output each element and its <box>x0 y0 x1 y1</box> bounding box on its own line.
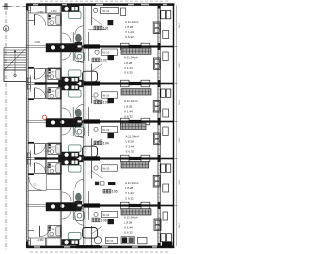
hall door arc 105 <box>75 179 84 188</box>
kitchen cluster y205.5 <box>46 203 82 212</box>
room door swing 104 <box>92 139 102 146</box>
bath unit 102 <box>48 68 61 80</box>
symbol circle 104 <box>94 127 98 131</box>
closet 105 <box>121 162 149 169</box>
svg-text:L 8.28: L 8.28 <box>124 221 133 225</box>
washer pan 102 <box>153 58 160 69</box>
svg-text:1.5M: 1.5M <box>50 229 55 231</box>
toilet wall 101 <box>72 32 74 47</box>
room label 105 <box>103 189 118 193</box>
svg-text:W↑10: W↑10 <box>103 51 110 55</box>
left wall <box>26 4 28 249</box>
sink basin 101 <box>69 12 81 19</box>
hall wall x61 103 <box>60 84 61 122</box>
svg-text:L 8.28: L 8.28 <box>125 25 134 29</box>
divider room boxes y46.5 <box>121 43 150 50</box>
hall door arc 102 <box>75 54 84 63</box>
hall wall x84 105 <box>83 159 85 206</box>
kitchen counter 103 <box>62 85 80 91</box>
porch niche wall 105 <box>28 174 34 176</box>
divider blob right y158.5 <box>76 155 84 162</box>
hall wall x61 101 <box>60 5 61 47</box>
meter box 104 <box>27 150 30 158</box>
svg-text:L 8.28: L 8.28 <box>126 140 135 144</box>
grid dash to wall <box>9 5 26 7</box>
divider wall y121.5 <box>26 120 173 122</box>
bottom wall <box>26 245 174 248</box>
divider wall y83.5 <box>26 82 173 84</box>
balcony box 104 <box>163 127 168 136</box>
room door swing 106 <box>92 227 102 234</box>
svg-text:L 8.28: L 8.28 <box>124 61 133 65</box>
kitchen cluster y46.5 <box>46 44 82 53</box>
divider blob right y83.5 <box>76 80 84 87</box>
washer pan 101 <box>153 22 160 34</box>
entry side wall 106 <box>46 238 47 246</box>
grid marker top <box>3 3 10 10</box>
svg-text:V 1.44: V 1.44 <box>126 145 135 149</box>
svg-text:102: 102 <box>101 59 107 63</box>
svg-text:D: D <box>5 27 7 31</box>
washbasin 102 <box>75 48 84 62</box>
room door swing 101 <box>92 18 102 25</box>
toilet wall2 102 <box>88 47 90 62</box>
entry side wall 101 <box>46 5 47 13</box>
svg-text:V 1.44: V 1.44 <box>124 226 133 230</box>
meter box 105 <box>27 159 30 167</box>
stair landing <box>4 70 26 82</box>
svg-text:-1.5M: -1.5M <box>37 10 45 14</box>
entry door 101 <box>35 14 46 25</box>
entry alcove wall 105 <box>28 172 61 174</box>
fire extinguisher mark <box>42 115 46 119</box>
dark cabinet 106b <box>121 237 135 244</box>
entry alcove wall 103 <box>28 97 61 99</box>
hall door arc 106 <box>75 216 84 225</box>
divider blob left y83.5 <box>59 80 69 86</box>
bath unit 106 <box>48 226 61 238</box>
bath unit 105 <box>48 163 61 175</box>
room wall 106 <box>91 226 93 246</box>
room wall 104 <box>91 139 93 159</box>
entry door 105 <box>35 163 46 173</box>
toilet wall2 103 <box>88 107 90 122</box>
hall door arc2 104 <box>62 126 71 135</box>
hall door arc2 106 <box>62 210 71 219</box>
washer pan 106 <box>154 219 161 230</box>
closet 103 <box>121 89 151 95</box>
entry side wall 102 <box>46 69 47 84</box>
divider room boxes y83.5 <box>121 80 150 87</box>
divider tick y121.5 <box>174 121 177 123</box>
balcony box 103 <box>163 109 169 117</box>
svg-text:A 11.34m²: A 11.34m² <box>125 181 138 185</box>
svg-text:-1.5M: -1.5M <box>34 41 40 44</box>
meter box 103 <box>27 84 30 92</box>
AC units 105 <box>161 164 171 172</box>
porch stub y83.5 <box>35 82 47 84</box>
balcony box 102 <box>163 52 168 61</box>
divider thick chunk y158.5 <box>84 156 100 160</box>
kitchen cluster y121.5 <box>46 119 82 128</box>
svg-text:S 6.32: S 6.32 <box>124 71 133 75</box>
bath unit 104 <box>48 143 61 155</box>
AC units 103 <box>161 89 171 97</box>
svg-text:V 1.44: V 1.44 <box>124 66 133 70</box>
hall wall x84 102 <box>83 47 85 84</box>
hall door arc 101 <box>75 26 84 35</box>
toilet wall2 104 <box>88 122 90 137</box>
sink basin 105 <box>69 165 81 172</box>
toilet 103 <box>75 109 82 120</box>
balcony outer wall <box>174 4 177 249</box>
svg-text:105: 105 <box>112 190 118 194</box>
toilet wall 105 <box>72 191 74 206</box>
dark box 102 <box>108 55 115 60</box>
symbol circle 106 <box>94 212 98 216</box>
symbol circle 106b <box>94 237 101 244</box>
divider tick y158.5 <box>174 158 177 160</box>
level marker circle <box>3 26 8 31</box>
kitchen counter 105 <box>62 160 80 166</box>
toilet 101 <box>75 34 82 45</box>
symbol circle 101 <box>94 8 98 12</box>
room label 106 <box>92 218 107 222</box>
divider tick y205.5 <box>174 205 177 207</box>
closet 106 <box>121 209 151 215</box>
storage box 101 <box>121 8 126 16</box>
hall door arc2 103 <box>62 108 71 117</box>
hall door arc2 105 <box>62 192 71 201</box>
svg-text:W↑10: W↑10 <box>103 213 110 217</box>
meter box 106 <box>27 238 30 246</box>
room wall 102 <box>91 64 93 84</box>
right wall <box>158 4 161 249</box>
divider thick chunk y121.5 <box>84 119 100 123</box>
divider wall y46.5 <box>26 45 173 47</box>
divider wall y205.5 <box>26 204 173 206</box>
porch niche wall 104 <box>28 142 34 144</box>
closet 106b <box>106 237 118 243</box>
svg-text:1.5M: 1.5M <box>50 166 55 168</box>
toilet wall2 106 <box>88 206 90 221</box>
AC units 106 <box>161 234 172 242</box>
symbol circle 105 <box>94 166 98 170</box>
landing mark <box>14 74 17 77</box>
svg-text:W↑10: W↑10 <box>103 9 110 13</box>
bath unit 101 <box>48 14 61 26</box>
svg-text:A 11.34m²: A 11.34m² <box>126 135 139 139</box>
entry door 102 <box>35 69 46 79</box>
hall wall x84 104 <box>83 122 85 159</box>
room wall 103 <box>91 84 93 104</box>
svg-text:V 1.44: V 1.44 <box>124 110 133 114</box>
hall wall x84 106 <box>83 206 85 247</box>
hall wall x84 103 <box>83 84 85 122</box>
divider room boxes y205.5 <box>121 202 150 209</box>
wbox 102 <box>102 49 118 55</box>
divider wall y158.5 <box>26 157 173 159</box>
svg-text:104: 104 <box>103 142 109 146</box>
symbol circle 103 <box>94 93 98 97</box>
svg-text:S 6.32: S 6.32 <box>125 35 134 39</box>
toilet wall2 101 <box>88 32 90 47</box>
entry side wall 105 <box>46 159 47 174</box>
balcony box 106 <box>163 212 168 220</box>
svg-text:W↑10: W↑10 <box>103 93 110 97</box>
exterior staircase <box>4 48 26 82</box>
svg-text:A 11.34m²: A 11.34m² <box>124 99 137 103</box>
porch niche wall 103 <box>28 99 34 101</box>
kitchen counter 104 <box>62 152 80 158</box>
washer pan 105 <box>153 176 160 188</box>
AC units 101 <box>161 11 171 19</box>
entry door 106 <box>40 226 51 237</box>
room label 103 <box>94 100 109 104</box>
hall door arc2 101 <box>62 33 71 42</box>
room wall 101 <box>91 5 93 25</box>
room wall 105 <box>91 159 93 179</box>
bathtub 102 <box>83 71 98 82</box>
svg-text:L 8.28: L 8.28 <box>124 105 133 109</box>
hall wall x61 104 <box>60 122 61 159</box>
dark box 101 <box>108 20 114 25</box>
svg-text:V 1.44: V 1.44 <box>125 191 134 195</box>
porch niche wall 106 <box>28 230 34 232</box>
hall door arc 103 <box>75 104 84 113</box>
svg-text:A 11.34m²: A 11.34m² <box>125 20 138 24</box>
bathtub 104 <box>83 146 98 157</box>
washbasin 104 <box>75 123 84 137</box>
svg-text:2 550: 2 550 <box>178 100 180 106</box>
room door swing 105 <box>92 171 102 178</box>
entry alcove wall 104 <box>28 143 61 145</box>
hall door arc2 102 <box>62 51 71 60</box>
meter box 102 <box>27 75 30 83</box>
room label 102 <box>92 58 107 62</box>
room door swing 103 <box>92 96 102 103</box>
wic box 105 <box>46 175 61 190</box>
meter box 101 <box>27 5 30 13</box>
sink basin 106 <box>69 232 81 239</box>
closet 102 <box>121 48 151 54</box>
wbox 104 <box>102 126 118 132</box>
washbasin 106 <box>75 207 84 221</box>
entry alcove wall 106 <box>28 237 61 239</box>
svg-text:1.5M: 1.5M <box>50 72 55 74</box>
wic wall 105 <box>28 190 46 192</box>
bathtub 106 <box>83 228 98 239</box>
entry alcove wall 101 <box>28 12 61 14</box>
toilet wall 102 <box>72 47 74 62</box>
room door swing 102 <box>92 64 102 71</box>
svg-text:2 550: 2 550 <box>178 223 180 229</box>
svg-text:A 11.34m²: A 11.34m² <box>124 216 137 220</box>
bottom dim dashes <box>30 251 170 253</box>
kitchen counter 101 <box>62 6 80 12</box>
balcony box 101 <box>163 31 169 39</box>
room shelf line 101 <box>89 29 107 31</box>
divider room boxes y158.5 <box>121 155 150 162</box>
symbol circle 102 <box>95 50 99 54</box>
wbox 103 <box>102 92 118 98</box>
washer pan 104 <box>153 133 160 144</box>
toilet 105 <box>75 193 82 204</box>
divider thick chunk y83.5 <box>84 81 100 85</box>
toilet wall 106 <box>72 206 74 221</box>
entry door 103 <box>35 88 46 98</box>
svg-text:2 550: 2 550 <box>178 137 180 143</box>
svg-text:1.5M: 1.5M <box>50 147 55 149</box>
top dim dashes <box>40 0 170 2</box>
sink basin 102 <box>69 70 81 77</box>
toilet wall 103 <box>72 107 74 122</box>
svg-text:CL: CL <box>34 184 38 187</box>
svg-text:103: 103 <box>103 101 109 105</box>
balcony box 105 <box>163 184 169 192</box>
svg-text:W↑10: W↑10 <box>103 166 110 170</box>
divider tick y46.5 <box>174 46 177 48</box>
closet 104 <box>121 123 147 130</box>
room label 101 <box>94 26 109 30</box>
toilet wall 104 <box>72 122 74 137</box>
hall wall x61 105 <box>60 159 61 206</box>
svg-text:2 550: 2 550 <box>178 179 180 185</box>
svg-text:106: 106 <box>101 219 107 223</box>
top wall <box>26 3 174 6</box>
svg-text:S 6.32: S 6.32 <box>124 115 133 119</box>
balcony corner block 106 <box>162 242 172 248</box>
entry door 104 <box>35 144 46 154</box>
dark box 106 <box>108 219 115 224</box>
divider room boxes y121.5 <box>121 118 150 125</box>
entry side wall 103 <box>46 84 47 99</box>
storage box 106b <box>138 237 148 244</box>
wbox 105 <box>102 165 118 171</box>
kitchen counter 106 <box>62 240 80 246</box>
svg-text:S 6.32: S 6.32 <box>126 150 135 154</box>
svg-text:W↑10: W↑10 <box>103 128 110 132</box>
sink basin 104 <box>69 145 81 152</box>
divider thick chunk y205.5 <box>84 203 100 207</box>
svg-text:2 550: 2 550 <box>178 62 180 68</box>
wbox 106 <box>102 211 118 217</box>
dark box 104 <box>108 133 115 138</box>
divider thick chunk y46.5 <box>84 44 100 48</box>
svg-text:S 6.32: S 6.32 <box>124 231 133 235</box>
fixture marks 105 <box>95 182 104 185</box>
closet 101 <box>101 8 119 14</box>
divider tick y83.5 <box>174 83 177 85</box>
svg-text:W↑10: W↑10 <box>107 239 114 243</box>
svg-text:4.5M: 4.5M <box>51 10 56 13</box>
dark box 103 <box>108 98 115 103</box>
svg-text:1.5M: 1.5M <box>50 91 55 93</box>
svg-text:1.5M: 1.5M <box>50 18 55 20</box>
svg-text:S 6.32: S 6.32 <box>125 197 134 201</box>
washer pan 103 <box>153 101 160 113</box>
room label 104 <box>94 141 109 145</box>
entry side wall 104 <box>46 144 47 159</box>
porch niche wall 102 <box>28 67 34 69</box>
svg-text:101: 101 <box>103 27 109 31</box>
hall wall x61 106 <box>60 206 61 247</box>
svg-text:2 550: 2 550 <box>178 23 180 29</box>
svg-text:L 8.28: L 8.28 <box>125 186 134 190</box>
grid line vertical <box>5 3 7 250</box>
dark box 105 <box>108 182 115 185</box>
svg-text:A 11.34m²: A 11.34m² <box>124 56 137 60</box>
hall wall x84 101 <box>83 5 85 47</box>
toilet wall2 105 <box>88 191 90 206</box>
bath unit 103 <box>48 88 61 100</box>
entry alcove wall 102 <box>28 68 61 70</box>
sink basin 103 <box>69 90 81 97</box>
svg-text:V 1.44: V 1.44 <box>125 30 134 34</box>
svg-text:-1.5M: -1.5M <box>37 238 45 242</box>
porch stub y158.5 <box>35 157 47 159</box>
hall wall x61 102 <box>60 47 61 84</box>
wic door 105 <box>29 178 42 191</box>
divider blob left y158.5 <box>59 155 69 161</box>
kitchen counter 102 <box>62 77 80 83</box>
porch niche wall 101 <box>28 20 34 22</box>
hall door arc 104 <box>75 129 84 138</box>
